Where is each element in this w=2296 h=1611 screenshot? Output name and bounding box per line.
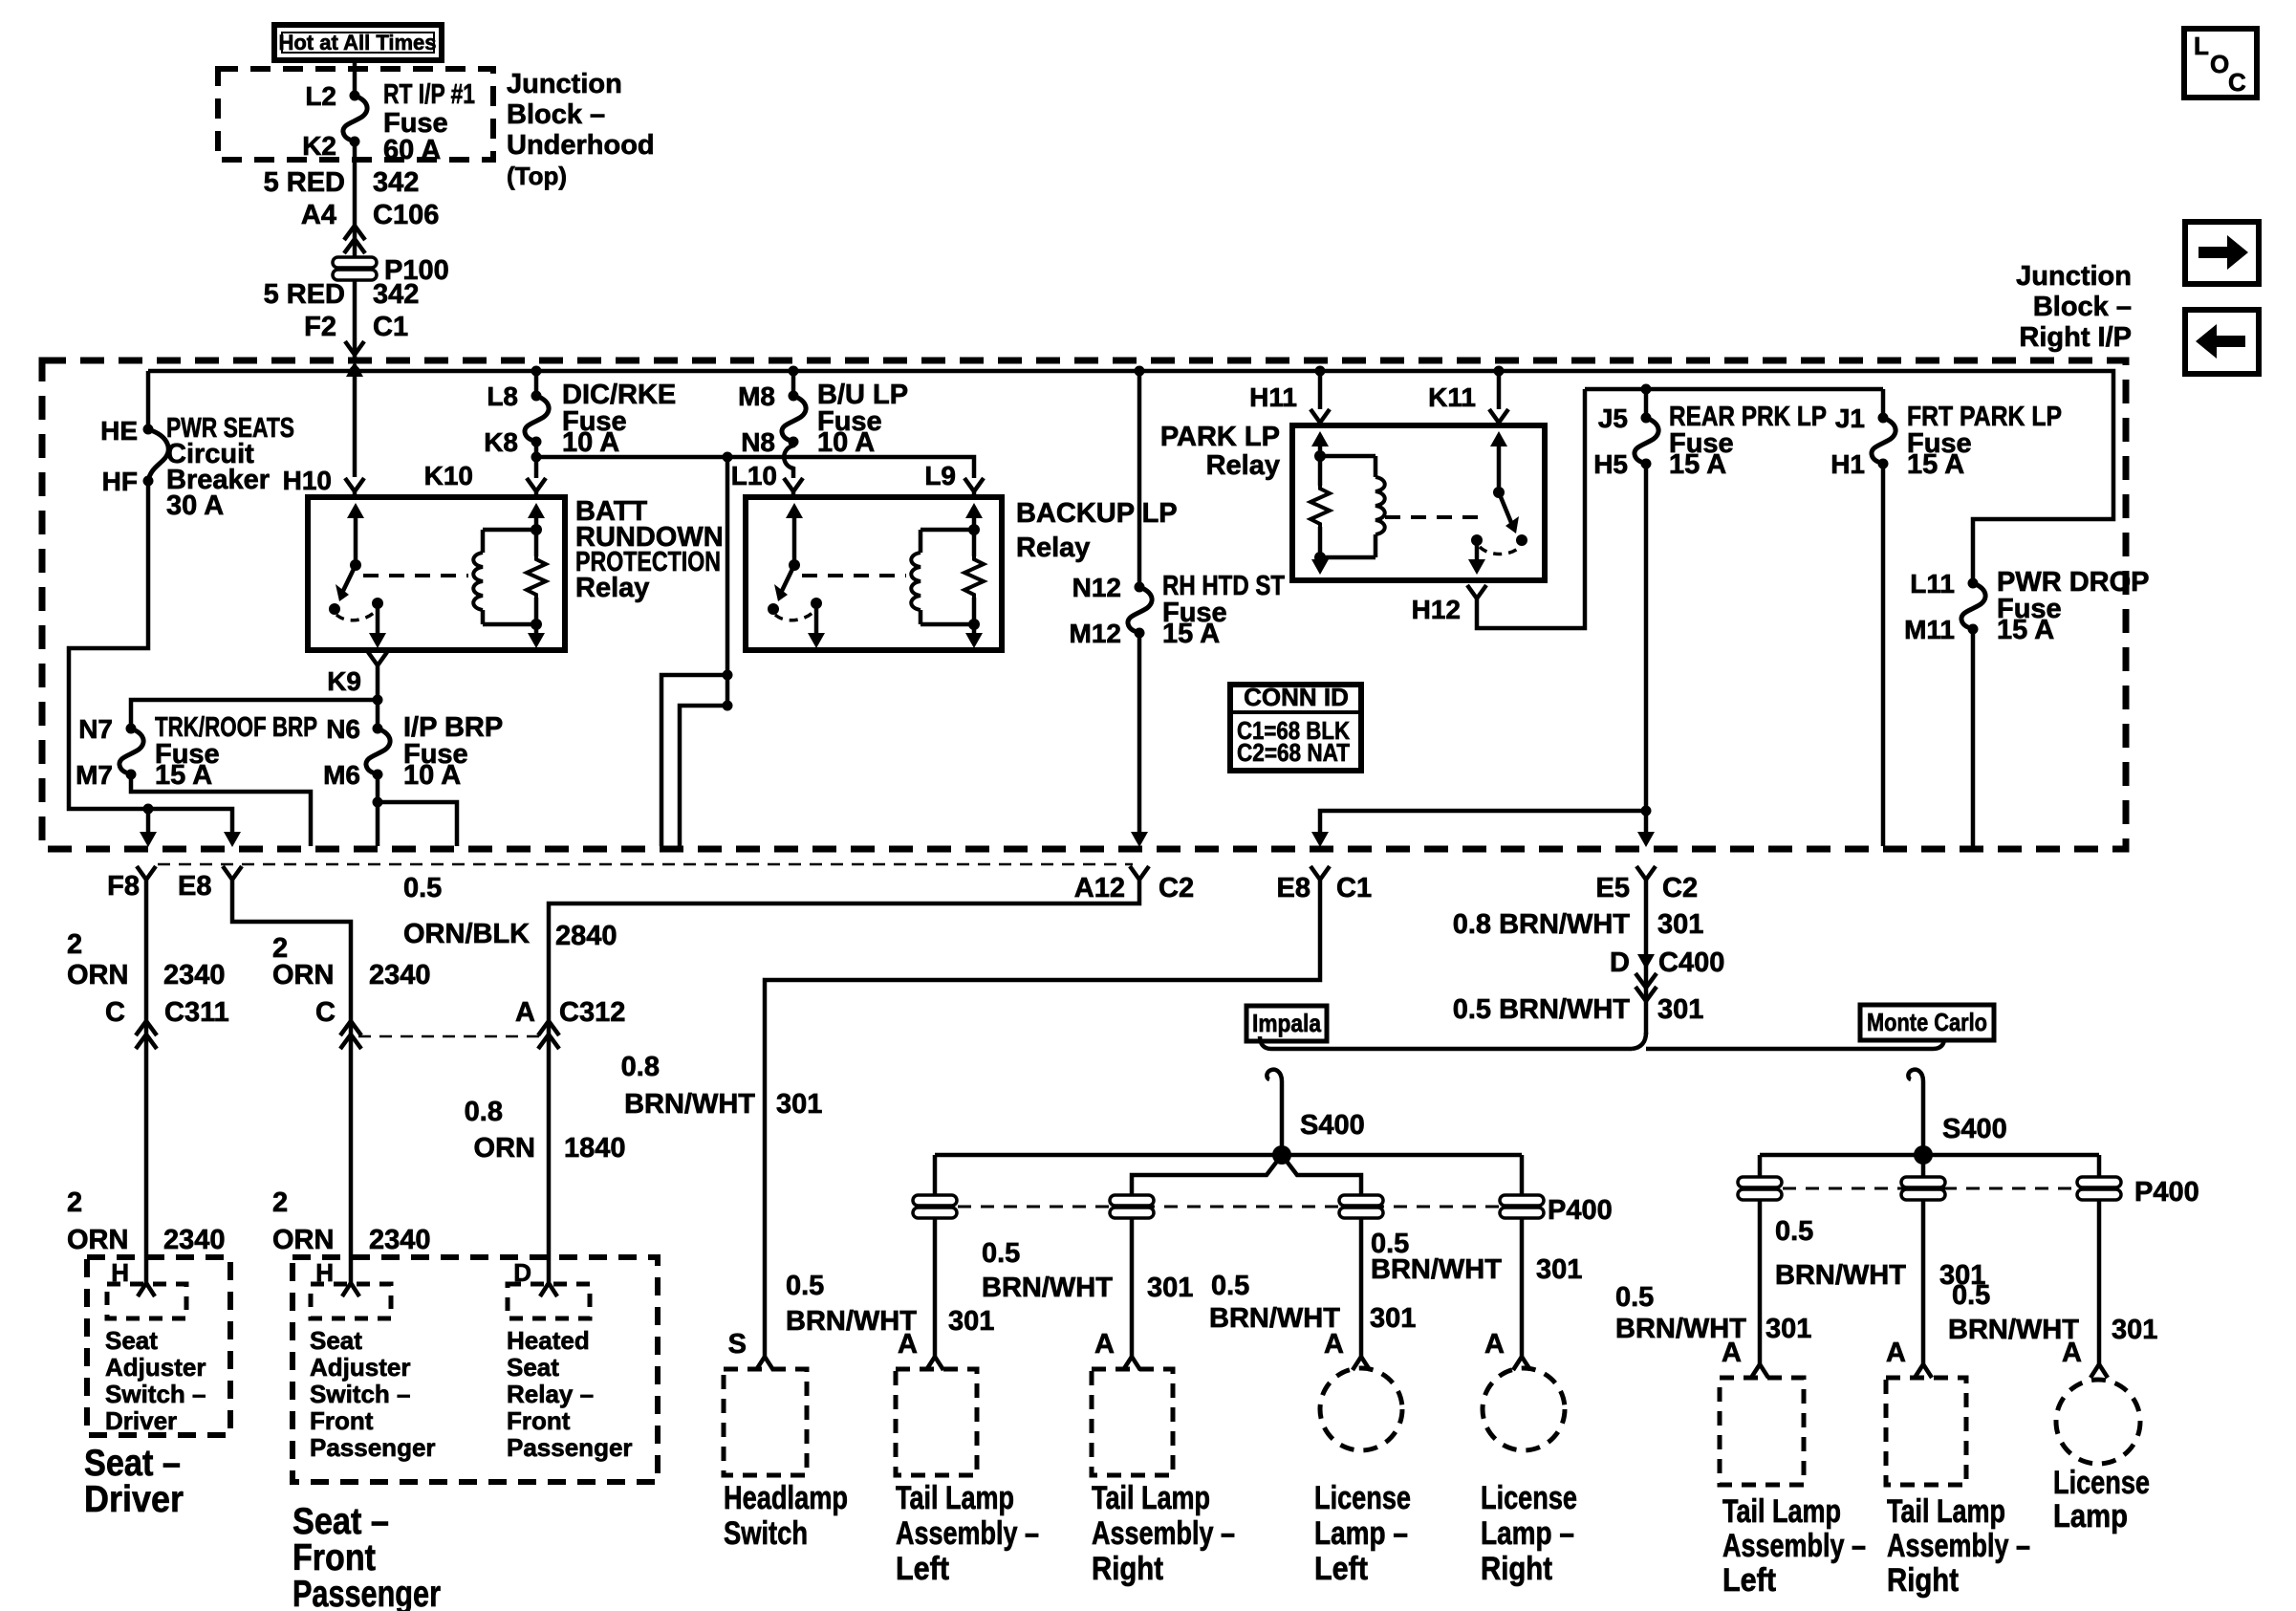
relay box PARK LP [1160,422,1545,580]
svg-text:ORN: ORN [272,960,334,991]
svg-text:A12: A12 [1074,873,1125,903]
wire labels 0.5 BRN/WHT 301 tail right [982,1238,1193,1303]
relay U1 switch [329,503,386,648]
svg-text:Seat: Seat [507,1353,559,1382]
svg-text:N7: N7 [78,714,113,744]
pin chevron A MC tail lamp right [1886,1338,1932,1378]
svg-text:BRN/WHT: BRN/WHT [982,1273,1113,1303]
wire H11 continues below relay to exit [1320,806,1652,835]
relay box BACKUP LP [746,497,1178,650]
svg-text:2: 2 [67,929,82,960]
svg-text:2: 2 [272,1187,288,1218]
svg-text:E8: E8 [178,871,211,902]
inline connector P400 MC barrel 1 [1738,1177,1782,1200]
svg-text:M11: M11 [1904,615,1955,644]
svg-text:A: A [898,1329,918,1360]
Impala S400 upper bus [935,1155,1522,1358]
svg-text:K8: K8 [484,427,518,457]
relay U1 control dashed [363,574,468,577]
svg-text:BRN/WHT: BRN/WHT [1209,1303,1340,1334]
fuse FRT PARK LP 15A (J1/H1) [1830,389,2062,480]
svg-text:10 A: 10 A [562,427,619,458]
svg-text:H11: H11 [1249,382,1297,412]
svg-text:1840: 1840 [564,1133,626,1164]
svg-text:Right: Right [1887,1562,1959,1599]
svg-text:C2: C2 [1159,873,1194,903]
svg-text:Assembly –: Assembly – [1887,1528,2030,1564]
svg-text:301: 301 [1370,1303,1416,1334]
headlamp switch dashed box [724,1369,848,1552]
svg-text:P400: P400 [2134,1177,2199,1208]
svg-text:J5: J5 [1598,403,1628,433]
LOC box [2184,29,2257,98]
svg-text:K9: K9 [327,666,361,696]
svg-text:Impala: Impala [1252,1009,1321,1037]
label: Junction Block - Right I/P [2016,261,2132,353]
svg-text:301: 301 [948,1306,994,1337]
svg-text:Junction: Junction [2016,261,2132,292]
svg-text:H10: H10 [283,466,332,495]
svg-text:Lamp –: Lamp – [1481,1515,1574,1552]
svg-text:Junction: Junction [507,69,622,99]
svg-text:Left: Left [1722,1562,1776,1599]
pin chevron H12 [1412,585,1486,624]
svg-text:ORN/BLK: ORN/BLK [403,919,530,949]
wire HF to F8/E8 exits [69,481,232,834]
svg-text:5 RED: 5 RED [264,167,345,198]
pin chevron H11 [1310,409,1330,425]
relay U3 coil [1320,456,1385,557]
svg-text:O: O [2210,50,2229,78]
svg-text:A: A [1722,1338,1742,1368]
wire labels 0.5 BRN/WHT 301 tail left [786,1271,994,1337]
svg-text:K2: K2 [302,131,336,161]
svg-text:10 A: 10 A [403,760,461,791]
svg-text:ORN: ORN [67,960,128,991]
inline connector P400 barrel 3 [1339,1195,1383,1218]
wire M11 stub [1971,629,1976,846]
svg-text:Tail Lamp: Tail Lamp [896,1480,1014,1516]
svg-text:Headlamp: Headlamp [724,1480,848,1516]
fuse PWR DROP 15A (L11/M11) [1904,567,2149,645]
pin chevron A tail lamp left [898,1329,943,1370]
tail lamp assembly left dashed box [896,1369,1039,1587]
wire H5 to E5 exit [1644,464,1649,832]
connector chevron F2/C1 [345,341,364,355]
pin chevron H passenger [315,1258,359,1296]
svg-text:C400: C400 [1658,947,1724,978]
svg-text:S400: S400 [1300,1110,1365,1141]
svg-text:Tail Lamp: Tail Lamp [1092,1480,1210,1516]
wire bus to PWR SEATS breaker [146,371,151,429]
label: Seat - Driver [84,1443,184,1520]
svg-text:License: License [1481,1480,1577,1516]
svg-text:Assembly –: Assembly – [1722,1528,1866,1564]
svg-text:0.5: 0.5 [786,1271,824,1301]
svg-text:E5: E5 [1596,873,1630,903]
wire bus to K11 [1428,371,1499,412]
inline connector P400 MC barrel 3 [2077,1177,2199,1208]
svg-text:HF: HF [102,467,138,496]
label: Junction Block - Underhood (Top) [507,69,655,190]
arrow entering junction block [346,361,363,377]
wire bus to H10 [283,371,355,495]
svg-text:Seat –: Seat – [292,1501,389,1542]
seat adjuster switch front passenger inner dashed box [310,1284,436,1462]
svg-text:0.5: 0.5 [403,873,442,903]
svg-text:M12: M12 [1070,619,1121,648]
svg-text:C2: C2 [1662,873,1698,903]
heated seat relay inner dashed box [507,1284,633,1462]
wire labels 0.5 BRN/WHT 301 MC tail right [1775,1216,1985,1291]
svg-text:Switch –: Switch – [310,1380,410,1408]
svg-text:Left: Left [1314,1551,1368,1587]
svg-text:Block –: Block – [507,99,605,130]
relay U3 switch [1468,431,1527,575]
wire labels 0.5 BRN/WHT 301 license right [1371,1229,1582,1285]
svg-text:15 A: 15 A [155,760,212,791]
svg-text:Seat –: Seat – [84,1443,181,1484]
wire labels 0.5 BRN/WHT 301 license left [1209,1271,1416,1334]
svg-text:K10: K10 [424,461,473,490]
svg-text:Passenger: Passenger [292,1574,441,1611]
wire bus to H11 [1249,371,1320,412]
svg-text:Relay –: Relay – [507,1380,594,1408]
svg-text:L10: L10 [731,461,777,490]
svg-text:P400: P400 [1548,1195,1613,1226]
splice S400 Monte Carlo [1914,1114,2007,1165]
svg-text:BACKUP LP: BACKUP LP [1016,498,1178,529]
relay U2 coil [911,524,980,630]
svg-text:2840: 2840 [555,921,617,951]
wire K8 branch to L9 [536,452,974,479]
inline connector P400 barrel 1 [913,1195,957,1218]
svg-text:A4: A4 [301,200,336,230]
arrow E5 exit [1637,832,1655,847]
svg-text:L: L [2194,32,2209,60]
seat driver outer dashed box [87,1257,230,1435]
svg-text:0.8 BRN/WHT: 0.8 BRN/WHT [1453,909,1631,940]
svg-text:C312: C312 [559,997,625,1028]
svg-text:15 A: 15 A [1997,615,2054,645]
svg-text:0.5: 0.5 [1775,1216,1813,1247]
svg-text:C: C [315,997,336,1028]
license lamp left dashed circle [1314,1368,1411,1587]
option bracket [1260,1036,1944,1049]
svg-text:60 A: 60 A [383,135,441,165]
wire K2 to P100 [264,145,440,258]
connector C312 dashed link [358,1035,541,1038]
svg-text:ORN: ORN [474,1133,535,1164]
svg-text:Relay: Relay [1206,450,1280,481]
connector C chevrons front passenger [340,1021,361,1049]
wire bus to N12 fuse [1137,371,1142,587]
svg-text:C311: C311 [164,997,229,1028]
svg-text:301: 301 [1657,994,1703,1025]
svg-text:M8: M8 [738,381,775,411]
svg-text:Adjuster: Adjuster [310,1353,410,1382]
connector C312 chevrons [538,1021,559,1049]
junction block underhood dashed box [218,69,493,160]
svg-text:RT I/P #1: RT I/P #1 [383,79,475,110]
svg-text:ORN: ORN [67,1225,128,1255]
svg-text:5 RED: 5 RED [264,279,345,310]
right arrow box [2185,222,2259,284]
svg-text:Block –: Block – [2033,292,2132,322]
relay U3 control dashed [1385,515,1487,519]
svg-text:E8: E8 [1277,873,1310,903]
wire bracket to Monte Carlo S400 [1908,1070,1923,1155]
wire E8 to seat front passenger [232,880,431,1284]
svg-text:Right: Right [1092,1551,1163,1587]
svg-text:0.5: 0.5 [982,1238,1020,1269]
svg-text:Switch: Switch [724,1515,808,1552]
svg-text:L8: L8 [487,381,518,411]
svg-text:Right: Right [1481,1551,1552,1587]
svg-text:BRN/WHT: BRN/WHT [1371,1254,1502,1285]
svg-text:0.5: 0.5 [1615,1282,1654,1313]
svg-text:L2: L2 [305,81,336,111]
label box: Impala [1246,1006,1327,1041]
relay U3 resistor [1310,431,1330,575]
svg-text:HE: HE [100,416,138,446]
svg-text:Tail Lamp: Tail Lamp [1722,1493,1841,1530]
relay box BATT RUNDOWN PROTECTION [308,496,724,650]
svg-text:License: License [1314,1480,1411,1516]
label: Seat - Front Passenger [292,1501,441,1611]
wire E5 to C400 [1453,880,1725,1034]
bus 1 top [148,371,2113,583]
bus 2 [1585,384,1883,395]
wire labels 0.5 BRN/WHT 301 MC tail left [1615,1282,1811,1344]
svg-text:Assembly –: Assembly – [896,1515,1039,1552]
seat adjuster switch driver inner dashed box [105,1284,206,1435]
svg-text:PARK LP: PARK LP [1160,422,1280,452]
wire labels 2 ORN 2340 driver lower [67,1187,226,1255]
connector C400 chevrons [1635,973,1657,1001]
svg-text:0.5 BRN/WHT: 0.5 BRN/WHT [1453,994,1631,1025]
Monte Carlo S400 bus [1760,1155,2099,1365]
connector chevron E8 [178,866,242,902]
svg-text:301: 301 [1147,1273,1193,1303]
svg-text:2340: 2340 [369,960,431,991]
pin chevron A tail lamp right [1094,1329,1140,1370]
CONN ID table [1230,683,1361,771]
license lamp right dashed circle [1481,1368,1577,1587]
MC tail lamp assembly left dashed box [1720,1378,1866,1599]
svg-text:2340: 2340 [163,960,226,991]
label box: Monte Carlo [1860,1005,1994,1040]
svg-text:C1: C1 [1336,873,1372,903]
svg-text:BRN/WHT: BRN/WHT [624,1089,755,1120]
wire bus to L8 fuse [534,371,539,396]
arrow E8 exit [224,832,241,847]
svg-text:H5: H5 [1593,449,1628,479]
inline connector P400 MC barrel 2 [1901,1177,1945,1200]
svg-text:C: C [2228,68,2246,97]
svg-text:Assembly –: Assembly – [1092,1515,1235,1552]
svg-text:N8: N8 [741,427,775,457]
svg-text:(Top): (Top) [507,162,567,190]
junction block right I/P dashed box [42,360,2126,849]
svg-text:30 A: 30 A [166,490,224,521]
svg-text:D: D [1610,947,1630,978]
wire C400 to option bracket [1453,994,1704,1049]
wire branch down to stubs [661,457,733,846]
wire H12 to bus 2 [1477,389,1585,628]
wire M7 stub [131,774,311,846]
svg-text:15 A: 15 A [1669,449,1726,480]
Impala S400 lower bus [1132,1155,1361,1358]
arrow F8 exit [140,832,157,847]
svg-text:10 A: 10 A [817,427,875,458]
svg-text:342: 342 [373,279,419,310]
svg-text:Front: Front [507,1406,571,1435]
svg-text:C106: C106 [373,200,439,230]
MC license lamp dashed circle [2053,1380,2150,1535]
pin chevron A MC tail lamp left [1722,1338,1768,1378]
wire M12 to A12 exit [1137,633,1142,832]
svg-text:BRN/WHT: BRN/WHT [1948,1315,2079,1345]
svg-text:Lamp: Lamp [2053,1498,2128,1535]
svg-text:Relay: Relay [1016,533,1090,563]
svg-text:L11: L11 [1910,569,1955,599]
pin chevron H10 [345,478,364,497]
svg-text:H12: H12 [1412,595,1461,624]
connector chevron E5/C2 [1596,866,1699,903]
svg-text:Monte Carlo: Monte Carlo [1867,1008,1987,1036]
svg-text:Front: Front [310,1406,374,1435]
pin chevron H driver [111,1258,155,1296]
wire bus2 to J5 fuse [1644,389,1649,418]
inline connector P400 barrel 4 [1500,1195,1613,1226]
svg-text:Right I/P: Right I/P [2019,322,2132,353]
wire H1 stub [1881,464,1886,846]
svg-text:Relay: Relay [575,573,649,603]
svg-text:Underhood: Underhood [507,130,655,161]
svg-text:Adjuster: Adjuster [105,1353,206,1382]
relay U1 coil [473,524,542,630]
relay U2 control dashed [802,574,906,577]
svg-text:A: A [515,997,535,1028]
wire A12 to heated seat relay [403,873,1139,1284]
wire bus to M8 fuse [791,371,796,396]
svg-text:0.8: 0.8 [621,1052,660,1082]
splice S400 Impala [1272,1110,1365,1165]
tail lamp assembly right dashed box [1092,1369,1235,1587]
connector chevron F8 [107,866,156,902]
arrow A12 exit [1131,832,1148,847]
pin chevron A MC license lamp [2062,1338,2108,1378]
svg-text:A: A [1886,1338,1906,1368]
wire K8 to K10 and branch [424,442,542,490]
svg-text:Passenger: Passenger [507,1433,633,1462]
wire E8/C1 to headlamp switch [621,880,1320,1358]
fuse I/P BRP 10A (N6/M6) [323,700,503,791]
svg-text:2340: 2340 [369,1225,431,1255]
MC tail lamp assembly right dashed box [1886,1378,2030,1599]
pin chevron K11 [1489,409,1508,425]
pin chevron S headlamp switch [728,1329,773,1370]
svg-text:C2=68 NAT: C2=68 NAT [1237,738,1350,767]
inline connector P400 barrel 2 [1110,1195,1154,1218]
left arrow box [2185,310,2259,374]
label box: Hot at All Times [274,25,442,60]
connector P400 dashed line Monte Carlo [1760,1187,2099,1190]
connector chevron A12 [1074,866,1194,903]
svg-text:L9: L9 [924,461,956,490]
svg-text:Driver: Driver [84,1479,184,1520]
wire bracket to Impala S400 [1267,1070,1282,1155]
connector P400 dashed line Impala [935,1206,1524,1208]
svg-text:15 A: 15 A [1162,619,1220,649]
svg-text:2340: 2340 [163,1225,226,1255]
svg-text:301: 301 [1765,1314,1811,1344]
connector C311 chevrons [136,1021,157,1049]
svg-text:0.5: 0.5 [1211,1271,1249,1301]
fuse REAR PRK LP 15A (J5/H5) [1593,402,1827,480]
bus 1 junction dots [350,366,1505,377]
svg-text:S400: S400 [1942,1114,2007,1144]
pin chevron A license lamp right [1484,1329,1530,1370]
pin chevron K9 [327,652,387,700]
svg-text:BRN/WHT: BRN/WHT [1775,1260,1906,1291]
connector chevrons A4/C106 [344,226,365,253]
fuse RH HTD ST 15A (N12/M12) [1070,571,1286,649]
wire N8 hop to L10 [731,442,793,490]
svg-text:K11: K11 [1428,382,1476,412]
wire labels 2 ORN 2340 passenger lower [272,1187,431,1255]
connector face dashed line below junction block [158,863,1133,866]
svg-text:Seat: Seat [310,1326,362,1355]
svg-text:15 A: 15 A [1907,449,1964,480]
svg-text:F2: F2 [304,312,336,342]
wire F8 to seat driver [67,880,229,1284]
relay U2 resistor [964,503,984,648]
svg-text:A: A [2062,1338,2082,1368]
fuse TRK/ROOF BRP 15A (N7/M7) [76,712,317,791]
pin chevron L9 [924,461,984,497]
svg-text:Left: Left [896,1551,949,1587]
svg-text:A: A [1324,1329,1344,1360]
wire K9 to N7/N6 fuses [131,695,383,729]
svg-text:A: A [1484,1329,1505,1360]
svg-text:Driver: Driver [105,1406,177,1435]
arrow E8/C1 exit [1311,832,1329,847]
svg-text:N12: N12 [1072,573,1121,602]
svg-text:M6: M6 [323,760,360,790]
wire P100 to junction block right I/P [264,279,420,358]
seat front passenger outer dashed box [292,1257,658,1482]
svg-text:S: S [728,1329,747,1360]
svg-text:A: A [1094,1329,1115,1360]
svg-text:301: 301 [2112,1315,2157,1345]
svg-text:Tail Lamp: Tail Lamp [1887,1493,2005,1530]
fuse DIC/RKE 10A (L8/K8) [484,380,676,458]
svg-text:CONN ID: CONN ID [1244,683,1349,711]
svg-text:0.5: 0.5 [1952,1280,1990,1311]
svg-text:License: License [2053,1465,2150,1501]
wire from Hot box into junction block [353,61,357,96]
circuit breaker PWR SEATS 30A (HE/HF) [100,413,294,521]
pin chevron K10 [527,478,546,497]
wire M6 stubs [373,774,458,846]
svg-text:ORN: ORN [272,1225,334,1255]
relay U2 switch [768,503,825,648]
svg-text:0.8: 0.8 [465,1097,503,1127]
fuse RT I/P #1 60A (L2/K2) [302,79,475,165]
svg-text:C: C [105,997,125,1028]
